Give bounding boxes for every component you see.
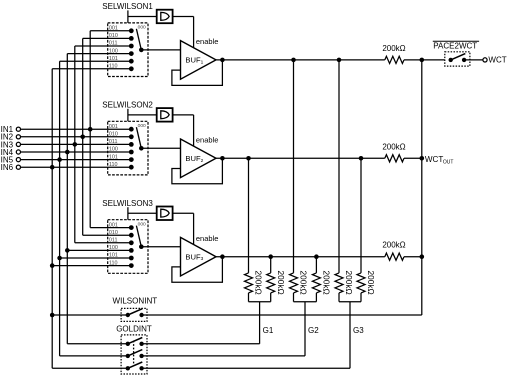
svg-text:001: 001 <box>109 26 118 32</box>
junction IN1 to bus <box>88 127 93 132</box>
op-amp BUF1 <box>181 37 219 79</box>
wire: tap to resistor <box>315 257 317 273</box>
junction row2 tap x=361 <box>359 156 364 161</box>
mux SELWILSON2 <box>102 101 153 175</box>
svg-text:100: 100 <box>109 245 118 251</box>
wire: pair 3 bottom join <box>339 301 361 303</box>
junction IN3 to bus <box>73 142 78 147</box>
resistor 200k G-bank 1 <box>245 271 264 302</box>
wire: row 3 resistor to rail <box>404 256 422 258</box>
node G3 <box>350 302 364 369</box>
wire: mux output to BUF2 <box>141 147 180 149</box>
wire: tap to resistor <box>338 60 340 273</box>
wire: WILSONINT row left <box>52 314 128 316</box>
wire: IN2 row <box>21 136 132 138</box>
wire: enable net 3 <box>128 212 157 214</box>
wire: IN5 row <box>21 159 132 161</box>
junction BUF2 output <box>220 156 225 161</box>
svg-text:WCT: WCT <box>488 56 506 65</box>
wire: GOLDINT row 3 left <box>52 367 128 369</box>
svg-text:OUT: OUT <box>443 159 454 165</box>
wire: SELWILSON3 label stub <box>127 207 129 220</box>
svg-text:110: 110 <box>109 260 118 266</box>
junction IN4 to bus <box>65 150 70 155</box>
resistor 200k G-bank 2 <box>267 271 286 302</box>
wire: input bus vertical IN2 <box>82 38 84 235</box>
mux SELWILSON3 <box>102 199 153 273</box>
junction row3 tap x=316.4 <box>314 254 319 259</box>
svg-text:GOLDINT: GOLDINT <box>116 324 152 333</box>
svg-text:011: 011 <box>109 41 118 47</box>
svg-text:SELWILSON1: SELWILSON1 <box>102 2 153 11</box>
svg-text:001: 001 <box>109 124 118 130</box>
svg-text:enable: enable <box>196 37 219 46</box>
resistor 200k G-bank 6 <box>357 271 376 302</box>
wire: WCT rail <box>421 60 423 315</box>
junction IN6 bus to WILSONINT <box>50 313 55 318</box>
wire: enable net 2 <box>128 114 157 116</box>
wire: PACE2WCT to WCT terminal <box>464 59 483 61</box>
resistor 200k G-bank 4 <box>312 271 331 302</box>
switch PACE2WCT <box>433 41 479 66</box>
wire: SELWILSON3 input row 1 <box>90 227 131 229</box>
junction IN2 to bus <box>80 135 85 140</box>
enable driver 2 <box>157 108 173 122</box>
wire: BUF3 output row <box>216 256 385 258</box>
junction row1 tap x=293.5 <box>291 58 296 63</box>
wire: IN1 row <box>21 128 132 130</box>
wire: BUF2 feedback <box>172 158 223 184</box>
svg-text:G3: G3 <box>353 326 364 335</box>
svg-text:SELWILSON3: SELWILSON3 <box>102 199 153 208</box>
resistor 200k output row 3 <box>382 241 405 261</box>
svg-text:100: 100 <box>109 147 118 153</box>
wire: enable to BUF2 <box>173 114 194 116</box>
svg-text:101: 101 <box>109 56 118 62</box>
op-amp BUF3 <box>181 234 219 276</box>
junction IN5 to bus <box>57 157 62 162</box>
wire: input bus vertical IN6 <box>51 69 53 369</box>
svg-text:200kΩ: 200kΩ <box>382 241 405 250</box>
wire: enable net 1 <box>128 16 157 18</box>
junction rail row 2 <box>420 156 425 161</box>
wire: IN4 row <box>21 151 132 153</box>
svg-text:000: 000 <box>138 221 146 227</box>
node G2 <box>305 302 319 356</box>
wire: GOLDINT row 2 right to G2 <box>142 355 305 357</box>
svg-text:enable: enable <box>196 234 219 243</box>
svg-text:SELWILSON2: SELWILSON2 <box>102 101 153 110</box>
junction row2 tap x=248.5 <box>246 156 251 161</box>
switch WILSONINT <box>113 296 158 321</box>
junction rail row 1 <box>420 58 425 63</box>
svg-text:000: 000 <box>138 25 146 31</box>
svg-text:010: 010 <box>109 230 118 236</box>
wire: rail to PACE2WCT <box>422 59 445 61</box>
svg-text:101: 101 <box>109 253 118 259</box>
wire: SELWILSON1 input row 3 <box>75 45 132 47</box>
svg-text:001: 001 <box>109 222 118 228</box>
svg-text:010: 010 <box>109 33 118 39</box>
svg-text:200kΩ: 200kΩ <box>382 142 405 151</box>
wire: SELWILSON3 input row 5 <box>60 257 132 259</box>
wire: BUF3 feedback <box>172 257 223 283</box>
wire: pair 2 bottom join <box>294 301 317 303</box>
svg-text:011: 011 <box>109 139 118 145</box>
junction BUF1 output <box>220 58 225 63</box>
svg-text:G1: G1 <box>263 326 274 335</box>
svg-text:WCT: WCT <box>425 155 443 164</box>
svg-text:200kΩ: 200kΩ <box>322 271 332 295</box>
wire: input bus vertical IN5 <box>59 61 61 356</box>
svg-text:110: 110 <box>109 64 118 70</box>
wire: SELWILSON1 input row 5 <box>60 60 132 62</box>
wire: input bus vertical IN4 <box>66 54 68 344</box>
wire: tap to resistor <box>248 158 250 273</box>
junction row1 tap x=339 <box>337 58 342 63</box>
svg-text:000: 000 <box>138 123 146 129</box>
junction bus IN5 to SELWILSON3 <box>57 256 62 261</box>
wire: BUF2 output row <box>216 157 385 159</box>
wire: GOLDINT row 3 right to G3 <box>142 367 350 369</box>
wire: GOLDINT row 1 right to G1 <box>142 343 260 345</box>
wire: IN3 row <box>21 143 132 145</box>
wire: tap to resistor <box>270 257 272 273</box>
svg-text:200kΩ: 200kΩ <box>382 44 405 53</box>
wire: SELWILSON3 input row 2 <box>83 234 132 236</box>
svg-text:G2: G2 <box>308 326 319 335</box>
junction rail row 3 <box>420 254 425 259</box>
wire: input bus vertical IN3 <box>74 46 76 243</box>
junction BUF3 output <box>220 254 225 259</box>
wire: BUF1 output row <box>216 59 385 61</box>
junction IN6 to bus <box>50 165 55 170</box>
svg-text:011: 011 <box>109 238 118 244</box>
wire: row 1 resistor to rail <box>404 59 422 61</box>
resistor 200k G-bank 3 <box>290 271 309 302</box>
wire: enable to BUF1 <box>173 16 194 18</box>
node WCT_OUT <box>425 155 454 165</box>
svg-text:WILSONINT: WILSONINT <box>113 296 158 305</box>
resistor 200k output row 1 <box>382 44 405 64</box>
wire: IN6 row <box>21 166 132 168</box>
wire: SELWILSON1 input row 4 <box>67 53 131 55</box>
wire: SELWILSON3 input row 4 <box>67 249 131 251</box>
resistor 200k G-bank 5 <box>335 271 354 302</box>
wire: BUF1 feedback <box>172 60 223 86</box>
wire: SELWILSON1 label stub <box>127 10 129 23</box>
wire: SELWILSON2 label stub <box>127 109 129 122</box>
svg-text:010: 010 <box>109 132 118 138</box>
terminal WCT <box>483 56 507 65</box>
wire: tap to resistor <box>293 60 295 273</box>
junction bus IN6 to SELWILSON3 <box>50 263 55 268</box>
svg-text:100: 100 <box>109 48 118 54</box>
junction bus IN4 to SELWILSON3 <box>65 248 70 253</box>
resistor 200k output row 2 <box>382 142 405 162</box>
wire: WILSONINT row right <box>142 314 422 316</box>
enable driver 3 <box>157 207 173 221</box>
wire: row 2 resistor to rail <box>404 157 422 159</box>
enable driver 1 <box>157 10 173 24</box>
svg-text:PACE2WCT: PACE2WCT <box>433 42 477 51</box>
node G1 <box>260 302 274 344</box>
junction row3 tap x=270.7 <box>268 254 273 259</box>
wire: mux output to BUF3 <box>141 246 180 248</box>
op-amp BUF2 <box>181 136 219 178</box>
wire: SELWILSON1 input row 2 <box>83 37 132 39</box>
mux SELWILSON1 <box>102 2 153 76</box>
wire: SELWILSON3 input row 6 <box>52 265 131 267</box>
wire: SELWILSON3 input row 3 <box>75 242 132 244</box>
wire: mux output to BUF1 <box>141 49 180 51</box>
wire: GOLDINT row 2 left <box>60 355 128 357</box>
switch GOLDINT <box>116 324 152 374</box>
wire: SELWILSON1 input row 1 <box>90 30 131 32</box>
svg-text:200kΩ: 200kΩ <box>276 271 286 295</box>
svg-text:200kΩ: 200kΩ <box>254 271 264 295</box>
wire: pair 1 bottom join <box>249 301 271 303</box>
svg-text:200kΩ: 200kΩ <box>299 271 309 295</box>
wire: GOLDINT row 1 left <box>67 343 128 345</box>
svg-text:110: 110 <box>109 162 118 168</box>
svg-text:enable: enable <box>196 136 219 145</box>
wire: enable to BUF3 <box>173 212 194 214</box>
wire: input bus vertical IN1 <box>89 31 91 228</box>
wire: tap to resistor <box>360 158 362 273</box>
svg-text:IN6: IN6 <box>1 163 14 172</box>
svg-text:200kΩ: 200kΩ <box>344 271 354 295</box>
svg-text:101: 101 <box>109 154 118 160</box>
wire: SELWILSON1 input row 6 <box>52 68 131 70</box>
svg-text:200kΩ: 200kΩ <box>366 271 376 295</box>
